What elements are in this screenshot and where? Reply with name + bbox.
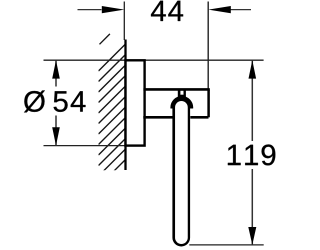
dimension 44 left tail line xyxy=(78,9,102,11)
dimension 119 down arrow xyxy=(248,227,256,245)
reference line bottom 119 xyxy=(189,244,263,246)
reference line top y=60 xyxy=(44,59,264,61)
text background 119 xyxy=(225,141,279,169)
dimension 44 left arrow xyxy=(102,6,125,13)
hanging bar (outer) xyxy=(172,105,190,246)
reference line bottom of plate Ø54 xyxy=(44,145,133,147)
dimension 119 up arrow xyxy=(249,60,257,78)
pivot pin xyxy=(178,89,186,98)
bar interior (white) xyxy=(175,101,188,244)
dimension 44 text xyxy=(151,1,183,21)
dimension Ø54 up arrow xyxy=(52,60,60,78)
holder body bottom edge right segment xyxy=(190,116,208,119)
dimension Ø54 down arrow xyxy=(52,127,60,145)
dimension line Ø54 xyxy=(55,60,57,145)
wall line xyxy=(124,40,126,171)
wall plate (rosette side view) xyxy=(126,60,145,145)
text background Ø54 xyxy=(22,87,88,116)
dimension 44 right arrow xyxy=(208,6,231,13)
dimension 44 right tail line xyxy=(231,9,252,11)
holder body front edge xyxy=(207,89,210,117)
dimension Ø54 text xyxy=(24,91,86,113)
holder body bottom edge left segment xyxy=(143,116,173,119)
wall hatching xyxy=(99,34,127,187)
extension line top 44 left xyxy=(123,2,125,41)
holder body top edge xyxy=(143,88,209,91)
short top hatch xyxy=(100,34,110,44)
dimension 119 text xyxy=(228,145,275,166)
dimension line 119 xyxy=(251,60,253,245)
extension line 44 right / front face xyxy=(207,2,209,89)
